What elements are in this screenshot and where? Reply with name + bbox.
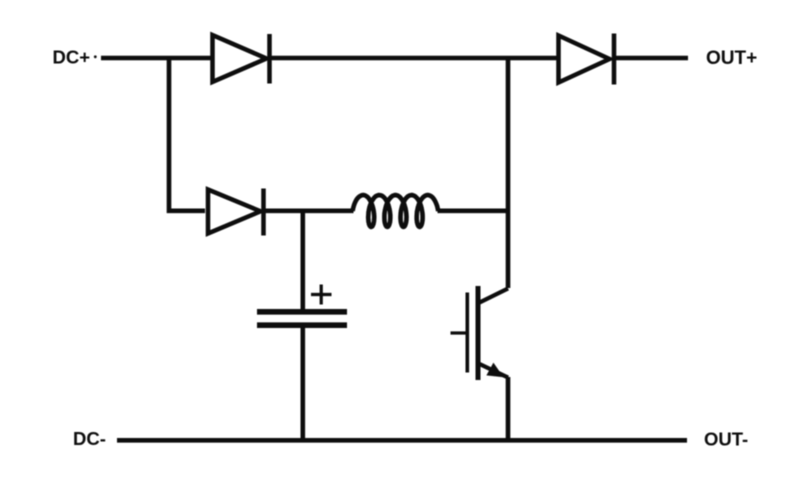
svg-text:DC-: DC- xyxy=(73,428,106,449)
svg-text:OUT+: OUT+ xyxy=(706,48,757,69)
svg-text:DC+: DC+ xyxy=(53,47,91,68)
svg-text:OUT-: OUT- xyxy=(704,429,748,450)
